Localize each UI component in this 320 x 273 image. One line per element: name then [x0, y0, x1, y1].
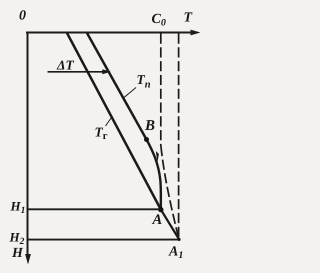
axis H (vertical, arrow down) — [25, 32, 31, 265]
dashed vertical to A1 (right) — [178, 34, 180, 240]
H2 level line — [27, 239, 179, 241]
svg-text:A: A — [152, 212, 163, 228]
dashed diagonal to A1 — [161, 146, 179, 240]
node B (dot) — [144, 137, 149, 142]
svg-text:0: 0 — [19, 9, 26, 24]
arrowhead on curve (direction B to A) — [156, 151, 159, 163]
svg-text:ΔT: ΔT — [56, 58, 74, 73]
svg-text:B: B — [144, 118, 155, 134]
node A1 (junction) — [177, 238, 180, 241]
wire A to A1 — [161, 210, 179, 240]
paper background — [0, 0, 208, 273]
line Tg (gas temperature, left diagonal) — [67, 33, 161, 210]
delta-T arrow — [48, 69, 111, 74]
dashed vertical from C0 — [160, 34, 162, 147]
svg-text:H: H — [11, 246, 24, 261]
svg-text:T: T — [184, 11, 194, 26]
condensation curve B to A — [147, 140, 161, 210]
line Tp (right diagonal, to point B) — [87, 33, 147, 140]
axis T (horizontal, arrow right) — [26, 30, 201, 36]
H1 level line — [27, 208, 161, 210]
node A (dot) — [158, 207, 163, 212]
